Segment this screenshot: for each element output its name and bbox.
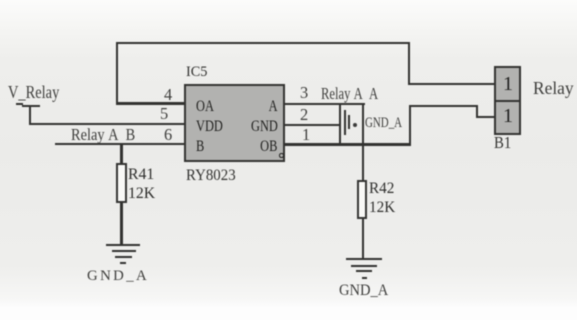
pin number 3 [300,85,308,101]
ground symbol under R41: bar 4 [120,262,126,264]
wire: left riser of top net down to pin 4 [116,42,118,105]
power symbol V_Relay: main bar [22,105,41,107]
ground symbol under R41: bar 1 [106,244,141,246]
wire: R41 bottom stem to ground [120,203,122,245]
wire: OB net horizontal toward connector [409,105,478,107]
IC pin name VDD [196,119,223,135]
net label Relay A B [71,126,135,143]
label IC5 [186,64,207,79]
label Relay at connector [533,80,574,97]
resistor R42 body [357,180,367,220]
capacitor plate (short bar) [348,115,350,128]
IC pin name OA [196,99,214,115]
label GND_A under R42 [339,283,388,299]
pin number 2 [300,107,308,123]
ground symbol under R42: bar 1 [346,258,383,260]
connector B1 body [494,66,521,135]
IC pin name A [268,99,277,115]
ground symbol under R42: bar 4 [362,277,367,279]
label RY8023 [186,167,236,183]
label GND_A under R41 [87,269,149,284]
capacitor plate (long bar) [344,110,346,135]
ground symbol under R42: bar 2 [351,265,377,267]
IC pin name OB [260,139,277,155]
IC IC5 (RY8023) body [184,84,285,163]
wire: top net horizontal from OA riser to connector riser [116,42,410,44]
wire: OB net riser at x=409.5 [409,105,411,146]
wire: pin 6 (B) net "Relay A B" horizontal [55,143,187,145]
wire: pin 2 (GND) horizontal [285,124,341,126]
wire: horizontal into connector top pin [408,83,495,85]
IC polarity circle marker [279,153,283,157]
power symbol V_Relay: small left dash [16,103,23,105]
IC pin name GND [251,119,278,135]
pin number 4 [164,87,172,103]
net label Relay A A [321,86,378,102]
net label GND_A at capacitor [365,116,402,131]
pin number 6 [164,127,172,143]
IC pin name B [196,139,204,155]
connector B1 divider [494,100,521,102]
connector pin label 1 (top) [503,74,513,94]
connector pin label 1 (bottom) [503,106,513,126]
capacitor polarity dot [353,123,357,127]
wire: V_Relay drop [29,105,31,126]
wire: pin 1 (OB) horizontal [285,143,411,145]
resistor R41 body [116,163,126,203]
wire: right riser of top net down to connector pin 1 level [408,42,410,86]
ground symbol under R41: bar 2 [112,250,136,252]
wire: pin 3 (A) horizontal [285,103,365,105]
label 12K (R42 value) [369,199,395,215]
label B1 [494,134,511,151]
ground symbol under R41: bar 3 [115,256,132,258]
label R41 [128,167,154,183]
wire: capacitor frame left vertical [339,103,341,145]
wire: OB net into connector bottom pin [476,116,495,118]
pin number 5 [160,106,168,122]
wire: vertical from A net down to R42 [362,103,364,180]
wire: OB net jog down [476,105,478,118]
label R42 [369,180,394,196]
label 12K (R41 value) [128,186,155,202]
pin number 1 [302,127,310,143]
net label V_Relay [8,84,59,102]
wire: pin 4 (OA) stub [116,102,187,104]
wire: pin 5 (VDD) horizontal from V_Relay to IC [29,123,187,125]
ground symbol under R42: bar 3 [356,270,373,272]
wire: stem from B net down to R41 [120,143,122,164]
wire: R42 bottom stem to ground [362,219,364,258]
